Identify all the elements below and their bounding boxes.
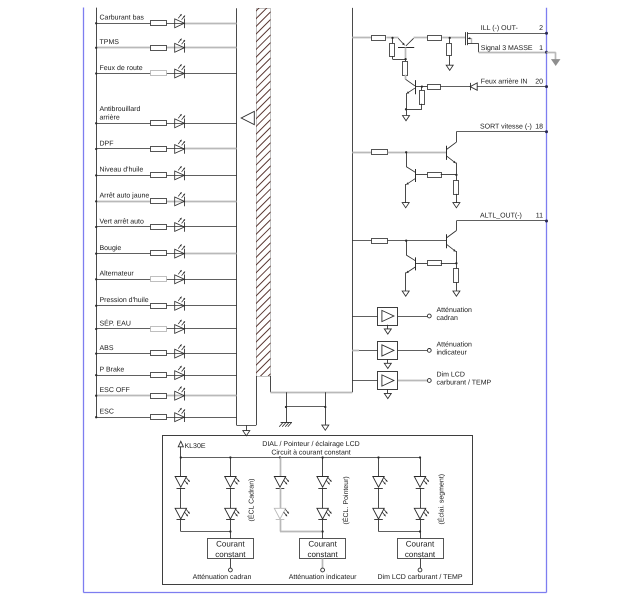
node Q1 base node [404,58,406,60]
label ABS [100,345,114,352]
svg-text:KL30E: KL30E [185,443,206,450]
op-amp buffer attenuation indicateur [378,342,398,360]
svg-text:18: 18 [535,123,543,130]
svg-text:arrière: arrière [100,114,120,122]
wire column 6 upper [420,458,422,477]
label output dim LCD [437,371,492,387]
svg-text:Feux de route: Feux de route [100,64,143,72]
LED column 5 lower [373,508,388,519]
LED row Antibrouillard arrière [175,114,185,128]
svg-text:Niveau d'huile: Niveau d'huile [100,166,144,174]
wire pin ALTL_OUT(-) [456,220,546,222]
resistor R11 Q5 emitter [454,269,459,283]
svg-text:ABS: ABS [100,345,114,352]
ground arrow buffer attenuation indicateur [384,359,391,368]
label pin SORT vitesse (-) [480,122,532,130]
wire R8 to ground [456,194,458,203]
wire column 1 even down [230,520,232,539]
ground arrow MASSE external (filled gray) [552,60,560,66]
resistor row Antibrouillard arrière [151,121,167,126]
wire R4 bottom to emitter [406,104,422,110]
node gate pulldown junction [449,37,451,39]
wire R6 to diode [440,86,470,88]
label Vert arrêt auto [100,217,144,225]
node row Bougie at supply bus [95,252,97,254]
wire connector right edge below hatch [270,376,272,392]
wire between ground drops [286,406,325,408]
label P Brake [100,365,125,373]
label Antibrouillard arrière [100,105,141,122]
wire row SÉP. EAU [96,328,236,330]
svg-text:Atténuation indicateur: Atténuation indicateur [289,573,357,581]
label ECL Pointeur (rotated) [341,476,350,524]
wire pin Signal 3 MASSE (gray) [479,52,547,54]
resistor row TPMS [151,46,167,51]
signal direction arrow (left) at connector [241,111,254,124]
LED row ABS [175,344,185,358]
wire Q6 collector up to junction [406,241,408,255]
wire pin Feux arriere IN [477,86,546,88]
wire row Arrêt auto jaune [96,201,236,203]
node row Feux de route at supply bus [95,72,97,74]
svg-text:(ÉCL Cadran): (ÉCL Cadran) [247,479,256,522]
LED column 4 lower [317,508,332,519]
page frame right (blue) [546,8,548,593]
wire column 4 upper [322,458,324,477]
wire Q5 collector up [456,221,458,231]
label SÉP. EAU [100,318,131,327]
LED row P Brake [175,366,185,380]
LED column 4 upper [317,477,332,489]
ground arrow below cathode bus [243,425,250,436]
chassis ground symbol [279,422,292,427]
wire R10 to Q5 base [388,240,447,242]
node emitter junction Q1 [391,37,393,39]
ground arrow buffer dim LCD [384,389,391,398]
wire column pair 1 join [181,520,231,532]
wire column 2 middle [230,488,232,508]
wire row TPMS [96,47,236,49]
resistor R7 SORT branch [372,150,388,155]
svg-text:ALTL_OUT(-): ALTL_OUT(-) [480,212,522,220]
wire Q4 collector up to junction [406,152,408,166]
ground arrow gate pulldown [446,65,453,70]
svg-text:TPMS: TPMS [100,39,120,46]
wire row Carburant bas [96,23,236,25]
wire R11 to ground [456,282,458,291]
node rail column 3 [279,456,281,458]
label Attenuation indicateur (bottom) [289,573,357,581]
LED column 2 lower [225,508,240,519]
transistor Q4 (NPN mirrored) [406,167,415,185]
svg-text:constant: constant [405,550,436,559]
svg-text:Vert arrêt auto: Vert arrêt auto [100,217,144,225]
wire KL30E rail [181,457,420,459]
svg-text:Signal 3 MASSE: Signal 3 MASSE [481,44,533,52]
wire junction to pulldown resistor [449,38,451,43]
label Attenuation cadran (bottom) [193,573,252,581]
resistor row ABS [151,351,167,356]
wire row ESC [96,417,236,419]
node row ABS at supply bus [95,352,97,354]
LED row Alternateur [175,270,185,284]
svg-text:SÉP. EAU: SÉP. EAU [100,318,131,327]
wire Q6 emitter down [405,272,407,291]
op-amp buffer dim LCD [378,372,398,390]
svg-text:ILL (-) OUT-: ILL (-) OUT- [481,24,519,32]
LED column 6 lower [414,508,429,519]
LED row Arrêt auto jaune [175,192,185,206]
wire row P Brake [96,375,236,377]
power symbol KL30E [178,441,183,457]
resistor row Carburant bas [151,21,167,26]
wire Q4 emitter down [405,184,407,203]
wire R5 to gate (gray) [442,37,465,39]
LED column 3 upper [274,477,289,489]
label Alternateur [100,270,135,278]
label ESC [100,409,114,416]
node pin 18 on frame [545,130,548,133]
resistor R8 Q3 emitter [454,181,459,195]
resistor R1 ILL branch [372,36,386,41]
wire pin SORT vitesse (-) [456,131,546,133]
page frame left (blue) [83,8,85,593]
node row ESC at supply bus [95,416,97,418]
wire R9 to Q4 base [416,174,427,176]
LED column 2 upper [225,477,240,489]
label TPMS [100,39,120,46]
label output attenuation indicateur [437,341,473,357]
svg-text:Dim LCD: Dim LCD [437,371,465,379]
wire row Alternateur [96,279,236,281]
svg-text:ESC OFF: ESC OFF [100,387,130,394]
wire row Vert arrêt auto [96,226,236,228]
wire constant current source 2 output [322,559,324,569]
node rail column 6 [419,456,421,458]
svg-text:Courant: Courant [308,540,337,549]
svg-text:constant: constant [307,550,338,559]
constant current block outline [163,436,473,585]
constant current source 2 [300,539,346,559]
wire pin ILL (-) OUT- [467,33,546,35]
wire R3 to Q2 collector (gray) [405,75,407,80]
node Q3 emitter junction [455,174,457,176]
constant current source 3 [398,539,444,559]
wire ground drop left [286,392,288,422]
svg-text:(Éclai. segment): (Éclai. segment) [437,474,446,525]
wire LED cathode bus [236,8,238,425]
label pin Feux arriere IN [481,77,528,85]
svg-text:DPF: DPF [100,140,114,147]
node row ESC OFF at supply bus [95,395,97,397]
wire column 5 upper [378,458,380,477]
svg-text:cadran: cadran [437,314,459,322]
wire left supply bus [96,8,98,418]
resistor R10 ALTL branch [372,239,388,244]
node output terminal dim LCD [427,379,431,383]
svg-text:ESC: ESC [100,409,114,416]
wire R12 right stub [441,263,457,265]
LED column 1 lower [175,508,190,519]
label pin number 2 [539,25,543,32]
wire column 1 upper [180,458,182,477]
label Pression d'huile [100,296,149,304]
label ESC OFF [100,387,130,394]
wire input buffer attenuation indicateur [352,350,378,352]
resistor R5 gate [428,36,442,41]
node row Antibrouillard arrière at supply bus [95,122,97,124]
node pin 11 on frame [545,220,548,223]
wire input buffer attenuation cadran [352,316,378,318]
svg-text:11: 11 [536,213,543,220]
svg-text:indicateur: indicateur [437,348,468,356]
node SORT branch junction [405,151,407,153]
label pin number 20 [535,78,543,85]
LED row Carburant bas [175,14,185,28]
resistor row Niveau d'huile [151,173,167,178]
wire R9 right stub [441,174,457,176]
label pin Signal 3 MASSE [481,44,533,52]
wire row Bougie [96,253,236,255]
wire column 3 even down [420,520,422,539]
label output attenuation cadran [437,306,473,322]
label Circuit a courant constant [271,449,350,457]
wire Q3 emitter down [456,163,458,181]
resistor R pulldown gate [447,44,452,56]
resistor R2 bias Q1 [390,44,395,57]
node output terminal attenuation indicateur [427,349,431,353]
svg-text:20: 20 [535,78,543,85]
wire Q1 collector to gate resistor (gray) [414,37,428,39]
svg-text:Atténuation cadran: Atténuation cadran [193,573,252,581]
label DIAL / Pointeur / eclairage LCD [262,440,359,448]
label pin ALTL_OUT(-) [480,212,522,220]
svg-text:Feux arrière IN: Feux arrière IN [481,77,528,85]
node pin 20 on frame [545,85,548,88]
wire Q2 base lead [415,86,427,88]
LED row Bougie [175,244,185,258]
label ECL Cadran (rotated) [247,479,256,522]
node pair 1 junction [229,530,231,532]
label Bougie [100,244,122,252]
node output terminal pair 1 [229,568,233,572]
node row Niveau d'huile at supply bus [95,174,97,176]
LED column 1 upper [175,477,190,489]
wire row Antibrouillard arrière [96,123,236,125]
wire column 2 even down [322,520,324,539]
node row Pression d'huile at supply bus [95,305,97,307]
resistor R12 Q5-Q6 [428,261,442,266]
wire column 6 middle [420,488,422,508]
wire row DPF [96,148,236,150]
wire output buffer attenuation cadran [398,316,428,318]
svg-text:2: 2 [539,25,543,32]
svg-text:Bougie: Bougie [100,244,122,252]
node pin 2 on frame [545,32,548,35]
wire R1 to emitter node (gray) [386,37,398,39]
wire Q5 emitter down [456,251,458,269]
svg-text:Atténuation: Atténuation [437,306,473,314]
page frame bottom (blue) [83,592,546,594]
wire column 3 upper [280,458,282,477]
ground arrow Q2 emitter [403,116,410,121]
transistor Q2 (NPN) [406,79,416,94]
mosfet U1 gate bar [465,32,467,45]
node output terminal pair 3 [418,568,422,572]
node rail column 4 [321,456,323,458]
node row SÉP. EAU at supply bus [95,328,97,330]
svg-text:Alternateur: Alternateur [100,270,135,278]
resistor row Arrêt auto jaune [151,199,167,204]
node rail column 2 [229,456,231,458]
wire column 5 middle [378,488,380,508]
wire column 2 upper [230,458,232,477]
connector hatched bar [255,0,272,389]
wire constant current source 1 output [230,559,232,569]
wire column pair 3 join [379,520,421,532]
wire column 1 middle [180,488,182,508]
wire R2 to base node [393,56,406,59]
node rail column 1 [180,456,182,458]
resistor row ESC OFF [151,394,167,399]
transistor Q3 (NPN) [447,142,457,163]
node ALTL branch junction [405,240,407,242]
svg-text:Arrêt auto jaune: Arrêt auto jaune [100,192,150,200]
LED row ESC [175,408,185,422]
wire column 3 middle [280,488,282,508]
node row DPF at supply bus [95,148,97,150]
node output terminal attenuation cadran [427,314,431,318]
LED row Vert arrêt auto [175,218,185,232]
wire Q2 emitter down [406,93,408,116]
resistor row Feux de route [151,71,167,76]
node pin 1 on frame [545,51,548,54]
LED row Niveau d'huile [175,166,185,180]
transistor Q1 (PNP) [398,38,414,47]
svg-text:(ÉCL. Pointeur): (ÉCL. Pointeur) [341,476,350,524]
wire pulldown to ground [449,55,451,65]
transistor Q5 (NPN) [447,231,457,252]
resistor row Vert arrêt auto [151,225,167,230]
ground arrow Q3 emitter [453,203,460,208]
mosfet U1 body arrow and stubs [467,37,478,52]
label Feux de route [100,64,143,72]
LED row DPF [175,140,185,154]
wire Q1 base lead (gray) [405,47,407,59]
constant current source 1 [208,539,254,559]
wire output buffer dim LCD [398,380,428,382]
node pair 2 junction [321,530,323,532]
resistor row Pression d'huile [151,304,167,309]
LED row Feux de route [175,64,185,78]
wire output buffer attenuation indicateur [398,350,428,352]
wire MASSE external drop (gray) [547,52,556,60]
label pin ILL (-) OUT- [481,24,519,32]
node row Carburant bas at supply bus [95,22,97,24]
resistor R6 Feux arriere [428,85,441,90]
resistor row ESC [151,415,167,420]
resistor row DPF [151,147,167,152]
svg-text:P Brake: P Brake [100,365,125,373]
wire branch ILL from bus (gray) [352,37,372,39]
LED row Pression d'huile [175,297,185,311]
op-amp buffer attenuation cadran [378,308,398,326]
wire Q3 collector up [456,132,458,143]
label Niveau d'huile [100,166,144,174]
node rail column 5 [377,456,379,458]
node row Arrêt auto jaune at supply bus [95,200,97,202]
mosfet U1 channel bar [467,32,469,45]
label pin number 18 [535,123,543,130]
LED row TPMS [175,39,185,53]
label Dim LCD carburant / TEMP (bottom) [377,573,462,581]
resistor R9 Q3-Q4 [428,173,442,178]
wire row ESC OFF [96,395,236,397]
resistor row P Brake [151,373,167,378]
wire branch SORT from bus (gray) [352,152,372,154]
label DPF [100,140,114,147]
node Q5 emitter junction [455,262,457,264]
ground arrow Q5 emitter [453,291,460,296]
ground arrow buffer attenuation cadran [384,325,391,334]
wire ground drop right [325,392,327,425]
svg-text:Dim LCD carburant / TEMP: Dim LCD carburant / TEMP [377,573,462,581]
wire row ABS [96,353,236,355]
node output terminal pair 2 [321,568,325,572]
node Q2 base junction [421,85,423,87]
svg-text:Courant: Courant [406,540,435,549]
label pin number 1 [539,45,543,52]
node row P Brake at supply bus [95,374,97,376]
diode D1 Feux arriere [470,83,477,90]
label pin number 11 [536,213,543,220]
svg-text:Circuit à courant constant: Circuit à courant constant [271,449,350,457]
svg-text:SORT vitesse (-): SORT vitesse (-) [480,122,532,130]
ground arrow Q4 emitter [402,203,409,208]
transistor Q6 (NPN mirrored) [406,255,415,273]
wire row Feux de route [96,73,236,75]
wire input buffer dim LCD [352,380,378,382]
wire R7 to Q3 base (gray) [388,152,447,154]
svg-text:Antibrouillard: Antibrouillard [100,105,141,113]
wire ground rail (gray) [271,392,353,394]
svg-text:carburant / TEMP: carburant / TEMP [437,378,492,386]
resistor R3 to Q2 [403,62,408,76]
wire column pair 2 join [280,520,323,532]
wire R12 to Q6 base [416,263,427,265]
wire R3 top stub [405,59,407,61]
svg-text:DIAL / Pointeur / éclairage LC: DIAL / Pointeur / éclairage LCD [262,440,359,448]
node Q2 emitter-R4 junction [405,108,407,110]
node row Alternateur at supply bus [95,278,97,280]
node row TPMS at supply bus [95,47,97,49]
wire row Niveau d'huile [96,175,236,177]
wire right supply bus [352,8,354,392]
svg-text:Carburant bas: Carburant bas [100,14,145,22]
svg-text:1: 1 [539,45,543,52]
label KL30E [185,443,206,450]
label Eclai segment (rotated) [437,474,446,525]
LED row SÉP. EAU [175,320,185,334]
ground arrow Q6 emitter [402,291,409,296]
svg-text:constant: constant [215,550,246,559]
resistor row Alternateur [151,277,167,282]
LED column 5 upper [373,477,388,489]
node pair 3 junction [419,530,421,532]
resistor row SÉP. EAU [151,327,167,332]
label Carburant bas [100,14,145,22]
wire cathode bus bottom [237,425,256,427]
